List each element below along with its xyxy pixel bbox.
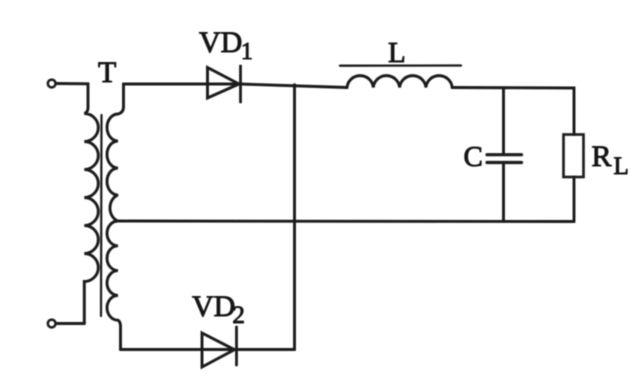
capacitor C bottom lead — [502, 164, 505, 221]
diode VD2 triangle — [202, 333, 235, 367]
diode VD1 triangle — [208, 68, 240, 99]
wire bottom (secondary to VD2 to node) — [121, 348, 295, 351]
wire primary top lead — [56, 84, 88, 108]
diode VD2 cathode bar — [235, 327, 238, 365]
wire primary bottom lead — [56, 322, 85, 325]
resistor RL box — [564, 135, 584, 178]
diode VD1 cathode bar — [239, 66, 242, 102]
svg-text:C: C — [464, 141, 483, 173]
svg-text:L: L — [388, 37, 406, 69]
wire top (secondary to VD1 to node A) — [124, 84, 348, 88]
capacitor C top lead — [502, 88, 505, 153]
svg-text:T: T — [98, 56, 116, 89]
node junction vertical (VD1/VD2 outputs) — [293, 85, 296, 350]
transformer T primary winding — [84, 108, 98, 324]
label L overline — [340, 64, 461, 66]
svg-text:VD1: VD1 — [199, 26, 253, 65]
svg-text:RL: RL — [592, 140, 629, 180]
capacitor C bottom plate — [487, 161, 522, 164]
inductor L — [347, 76, 452, 88]
capacitor C top plate — [487, 153, 522, 156]
transformer T secondary lower winding — [107, 221, 121, 350]
terminal bottom-left — [48, 320, 56, 328]
wire top right (L to RL corner) — [452, 88, 574, 135]
resistor RL bottom lead — [573, 177, 576, 222]
svg-text:VD2: VD2 — [192, 290, 245, 329]
transformer core — [100, 115, 103, 316]
transformer T secondary upper winding — [107, 84, 124, 221]
wire middle (center tap return) — [118, 220, 574, 223]
terminal top-left — [48, 80, 56, 88]
